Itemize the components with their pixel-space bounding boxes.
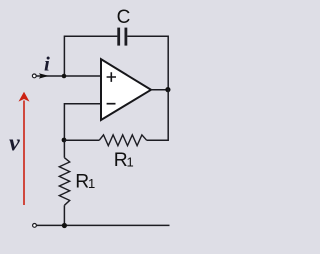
wire: bottom rail: [37, 224, 170, 226]
wire: grounding resistor to bottom rail: [63, 205, 65, 225]
node: input junction: [62, 74, 67, 79]
current arrow i: [39, 73, 49, 78]
svg-text:i: i: [44, 54, 50, 76]
svg-text:v: v: [9, 131, 20, 157]
svg-text:C: C: [117, 7, 131, 28]
node: inverting input junction: [62, 138, 67, 143]
resistor R1 (grounding, vertical): [59, 158, 69, 206]
wire: input node up and right to capacitor left plate: [64, 36, 117, 77]
input terminal: [32, 74, 36, 78]
node: bottom junction: [62, 223, 67, 228]
svg-text:R1: R1: [75, 172, 95, 193]
wire: inverting node to grounding resistor: [63, 140, 65, 158]
bottom terminal: [33, 224, 37, 228]
wire: output: [151, 89, 168, 91]
wire: output node down to feedback resistor: [147, 89, 169, 140]
capacitor C: [119, 28, 126, 46]
wire: capacitor right plate right and down to output node: [127, 36, 168, 89]
resistor R1 (feedback, horizontal): [99, 135, 147, 146]
wire: input terminal to op-amp + input: [37, 75, 102, 77]
+ input marker: [107, 72, 116, 82]
− input marker: [107, 103, 116, 105]
svg-text:R1: R1: [114, 150, 134, 171]
op-amp U1: [101, 59, 151, 120]
voltage arrow v (red): [19, 92, 30, 205]
wire: − input left and down to inverting node: [64, 104, 101, 140]
wire: inverting node to feedback resistor: [64, 139, 99, 141]
node: output junction: [165, 87, 170, 92]
